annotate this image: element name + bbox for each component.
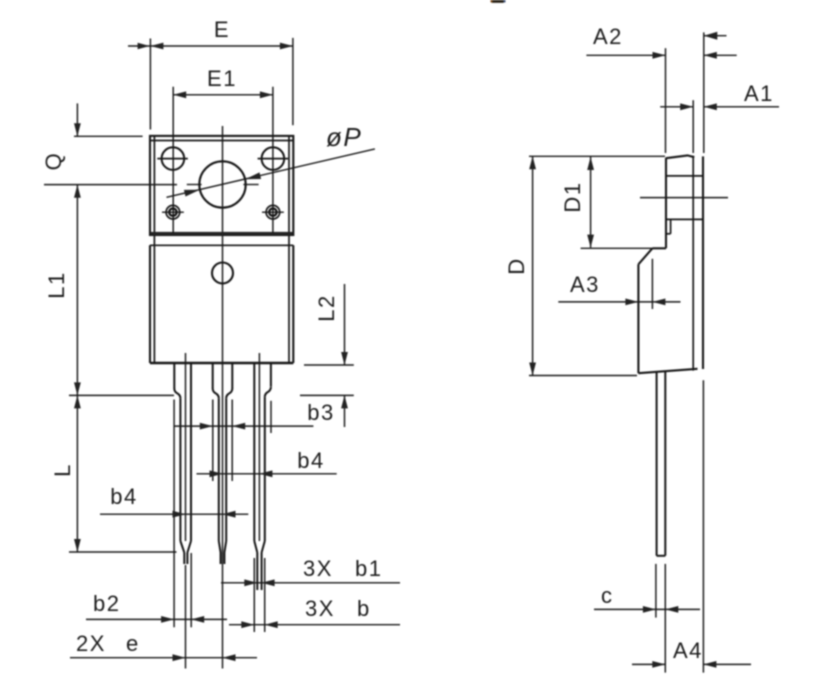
svg-text:b1: b1 bbox=[355, 556, 382, 581]
svg-text:A3: A3 bbox=[570, 272, 600, 297]
dimension 3X b1 bbox=[221, 579, 400, 586]
dimension D1 bbox=[581, 157, 653, 248]
lead 1 (left) front view bbox=[174, 363, 191, 564]
dimension b3 bbox=[175, 423, 314, 430]
side lead bbox=[657, 371, 666, 556]
dimension A1 bbox=[660, 100, 779, 153]
side step edge bbox=[652, 247, 666, 249]
dimension L1 bbox=[44, 185, 177, 396]
lead 2 extension lines bbox=[213, 400, 232, 482]
dimension E1 bbox=[173, 87, 273, 233]
svg-text:b3: b3 bbox=[307, 400, 334, 425]
dimension L2 bbox=[300, 284, 354, 427]
svg-text:Q: Q bbox=[41, 152, 66, 171]
side bottom edge bbox=[638, 369, 697, 373]
side lead extension lines bbox=[656, 564, 665, 673]
dimension L bbox=[69, 395, 177, 552]
dimension A2 bbox=[586, 32, 736, 153]
svg-text:c: c bbox=[601, 583, 614, 608]
svg-text:A2: A2 bbox=[593, 24, 623, 49]
lead 3 extension and center lines bbox=[254, 353, 271, 632]
svg-text:E1: E1 bbox=[207, 66, 237, 91]
svg-text:A1: A1 bbox=[744, 81, 774, 106]
side lower front face bbox=[637, 264, 639, 373]
svg-text:2X: 2X bbox=[76, 631, 106, 656]
dimension b2 bbox=[86, 616, 227, 623]
mounting hole right bbox=[258, 147, 289, 170]
svg-text:L2: L2 bbox=[314, 294, 339, 321]
side face bump bbox=[666, 219, 703, 233]
mold ejector circle on body bbox=[212, 263, 233, 284]
dimension A4 bbox=[632, 380, 751, 672]
center hole P bbox=[187, 161, 259, 207]
tab horizontal line bbox=[666, 175, 703, 177]
svg-text:D: D bbox=[504, 257, 529, 274]
tab back vertical line bbox=[702, 156, 704, 369]
tab front vertical line bbox=[692, 156, 694, 371]
dimension c bbox=[594, 606, 700, 613]
mounting hole left (circle with cross line) bbox=[157, 147, 188, 170]
dimension 2X e bbox=[70, 654, 257, 661]
svg-text:E: E bbox=[214, 17, 230, 42]
svg-text:b4: b4 bbox=[297, 448, 324, 473]
side body top edge bbox=[666, 155, 694, 158]
svg-text:L: L bbox=[50, 463, 75, 477]
lead 1 extension and center lines bbox=[174, 353, 191, 669]
body front face top edge bbox=[150, 244, 293, 246]
stray glyph fragment top edge bbox=[492, 0, 504, 3]
dimension Q bbox=[74, 103, 143, 136]
lead 3 (right) front view bbox=[254, 363, 271, 590]
lead 2 (middle) front view bbox=[213, 363, 233, 564]
svg-text:øP: øP bbox=[326, 122, 362, 152]
dimension D bbox=[529, 156, 665, 375]
side horizontal centerline bbox=[640, 197, 728, 199]
small pin circle lower-left bbox=[162, 205, 184, 219]
dimension E bbox=[128, 38, 293, 130]
leader diameter P bbox=[167, 149, 375, 197]
tab outline (front view) bbox=[150, 136, 293, 363]
datum flag bbox=[704, 32, 727, 40]
svg-text:A4: A4 bbox=[673, 638, 703, 663]
dimension 3X b bbox=[229, 621, 400, 628]
dimension b4 (lead 2) bbox=[197, 470, 337, 477]
svg-text:b: b bbox=[357, 596, 371, 621]
small pin circle lower-right bbox=[262, 205, 284, 219]
dimension A3 bbox=[558, 259, 680, 309]
tab inner chamfer lines bbox=[151, 136, 293, 363]
svg-text:L1: L1 bbox=[44, 271, 69, 298]
main vertical centerline bbox=[222, 126, 224, 669]
svg-text:3X: 3X bbox=[303, 556, 333, 581]
tab bottom thick band bbox=[151, 232, 293, 235]
svg-text:3X: 3X bbox=[305, 596, 335, 621]
svg-text:D1: D1 bbox=[560, 181, 585, 212]
side chamfer bbox=[638, 248, 652, 264]
svg-text:b2: b2 bbox=[93, 591, 120, 616]
dimension b4 (lead 1) bbox=[100, 511, 248, 518]
svg-text:e: e bbox=[126, 631, 140, 656]
side upper front face bbox=[665, 158, 667, 249]
svg-text:b4: b4 bbox=[110, 484, 137, 509]
